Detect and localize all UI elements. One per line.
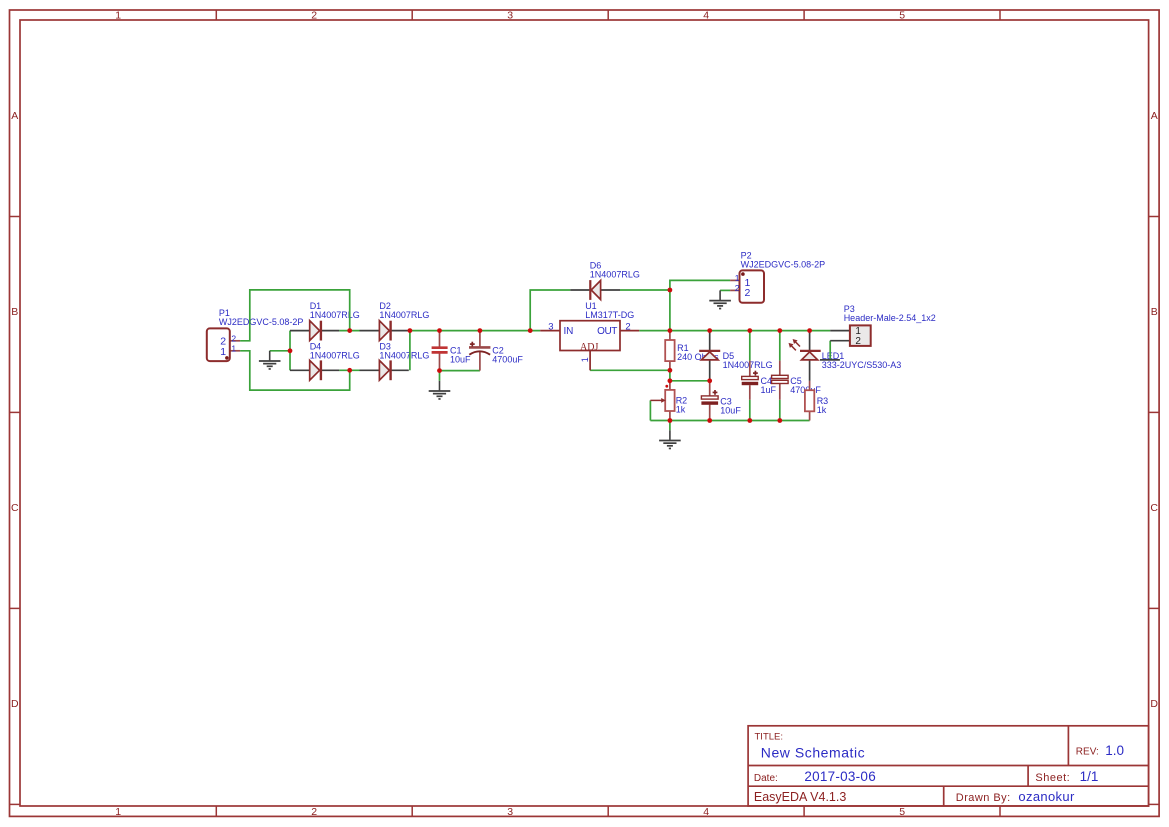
row tick left 1 xyxy=(10,216,21,218)
wire D6 anode to OUT column xyxy=(620,289,670,291)
potentiometer R2 wiper arrow xyxy=(650,385,668,403)
junction node J1 xyxy=(347,328,352,333)
svg-text:1k: 1k xyxy=(817,405,827,415)
svg-text:D: D xyxy=(11,698,19,710)
resistor R1 xyxy=(665,340,674,361)
wire P3 pin1 lead xyxy=(830,330,850,332)
column tick bottom 1 xyxy=(215,806,217,816)
wire D6 leads xyxy=(570,289,589,291)
lead C1 top xyxy=(439,331,441,348)
wire C5 column upper xyxy=(779,331,781,361)
capacitor C4 (polarized) xyxy=(742,371,759,385)
wire R2 wiper to bottom rail xyxy=(649,400,651,420)
svg-text:1N4007RLG: 1N4007RLG xyxy=(310,310,360,320)
connector P2 xyxy=(740,270,765,302)
svg-text:2: 2 xyxy=(231,333,236,343)
op-amp regulator U1 LM317T-DG xyxy=(560,321,620,354)
svg-text:2: 2 xyxy=(311,806,317,818)
lead R3 top xyxy=(809,381,811,390)
wire P2 pin2 to ground xyxy=(720,289,730,291)
pin stub U1 pin1 ADJ xyxy=(589,351,591,371)
svg-text:TITLE:: TITLE: xyxy=(755,732,784,743)
svg-text:2: 2 xyxy=(625,322,630,333)
svg-text:New Schematic: New Schematic xyxy=(761,745,865,761)
capacitor C2 (polarized) xyxy=(469,342,490,355)
svg-text:4700uF: 4700uF xyxy=(492,355,523,365)
diode D1 xyxy=(310,321,321,341)
connector P3 xyxy=(850,325,871,347)
svg-text:1N4007RLG: 1N4007RLG xyxy=(310,351,360,361)
wire ADJ row to D5 anode xyxy=(670,380,710,382)
svg-text:WJ2EDGVC-5.08-2P: WJ2EDGVC-5.08-2P xyxy=(741,260,826,270)
wire P1 pin1 to bridge bottom (net AC2) xyxy=(240,351,350,390)
junction node J18 xyxy=(668,418,673,423)
LED1 emission arrows xyxy=(791,346,796,351)
svg-text:Date:: Date: xyxy=(754,773,778,784)
svg-text:3: 3 xyxy=(548,322,553,333)
svg-text:ozanokur: ozanokur xyxy=(1018,789,1075,804)
wire bottom ground rail xyxy=(650,420,809,422)
lead R3 bottom xyxy=(809,411,811,420)
wire D5 leads xyxy=(709,331,711,351)
junction node J16 xyxy=(668,378,673,383)
svg-text:2: 2 xyxy=(745,287,751,299)
wire bottom rail to ground stub xyxy=(669,421,671,431)
wire D2 leads xyxy=(360,330,380,332)
junction node J13 xyxy=(437,368,442,373)
svg-text:1/1: 1/1 xyxy=(1080,769,1099,784)
svg-text:ADJ: ADJ xyxy=(580,342,598,353)
svg-text:D: D xyxy=(1150,698,1158,710)
column tick top 4 xyxy=(803,10,805,20)
wire bridge left rail xyxy=(289,331,291,371)
ground (C1/C2) xyxy=(429,381,451,399)
lead C5 top xyxy=(779,361,781,376)
svg-text:Header-Male-2.54_1x2: Header-Male-2.54_1x2 xyxy=(844,313,936,323)
pin stub U1 pin2 OUT xyxy=(620,330,639,332)
column tick top 3 xyxy=(607,10,609,20)
row tick right 4 xyxy=(1149,803,1160,805)
junction node J5 xyxy=(528,328,533,333)
wire VIN rail up to D6 cathode xyxy=(530,290,570,331)
svg-text:1N4007RLG: 1N4007RLG xyxy=(723,360,773,370)
svg-text:1: 1 xyxy=(115,10,121,22)
svg-text:A: A xyxy=(1151,110,1158,122)
LED LED1 xyxy=(789,339,821,360)
lead R2 bottom xyxy=(669,411,671,421)
svg-text:C: C xyxy=(11,502,19,514)
lead R1 bottom xyxy=(669,361,671,370)
junction node J17 xyxy=(707,378,712,383)
wire ADJ node R1 to R2 xyxy=(669,370,671,381)
wire LED1 leads xyxy=(809,331,811,351)
junction node J19 xyxy=(707,418,712,423)
junction node J21 xyxy=(777,418,782,423)
junction node J2 xyxy=(408,328,413,333)
svg-text:1: 1 xyxy=(220,346,226,358)
junction node J14 xyxy=(668,288,673,293)
wire main rail bridge to U1 IN (net VIN) xyxy=(409,330,540,332)
svg-text:Sheet:: Sheet: xyxy=(1035,772,1070,784)
ground (P1 input) xyxy=(259,351,281,369)
connector P1 xyxy=(207,328,230,361)
column tick top 2 xyxy=(411,10,413,20)
lead C2 bottom xyxy=(479,352,481,371)
svg-text:5: 5 xyxy=(899,10,905,22)
svg-text:A: A xyxy=(11,110,18,122)
wire D1 leads xyxy=(290,330,310,332)
wire VOUT rail to P3 pin1 xyxy=(670,330,830,332)
row tick right 2 xyxy=(1149,411,1160,413)
svg-text:1: 1 xyxy=(735,273,740,283)
pin stub P1 pin2 xyxy=(230,340,240,342)
lead R2 top xyxy=(669,381,671,390)
svg-text:10uF: 10uF xyxy=(450,355,471,365)
lead R1 top xyxy=(669,331,671,340)
lead C5 bottom xyxy=(779,384,781,400)
svg-text:2: 2 xyxy=(855,336,861,347)
svg-text:3: 3 xyxy=(507,10,513,22)
diode D3 xyxy=(379,360,390,380)
junction node J8 xyxy=(747,328,752,333)
column tick bottom 5 xyxy=(999,806,1001,816)
svg-text:10uF: 10uF xyxy=(720,405,741,415)
pin stub P1 pin1 xyxy=(230,350,240,352)
junction node J7 xyxy=(707,328,712,333)
wire P3 pin2 to LED cathode node xyxy=(820,359,840,361)
junction node J11 xyxy=(288,348,293,353)
column tick bottom 3 xyxy=(607,806,609,816)
svg-text:B: B xyxy=(1151,306,1158,318)
pin stub U1 pin3 IN xyxy=(540,330,560,332)
row tick left 3 xyxy=(10,607,21,609)
row tick left 4 xyxy=(10,803,21,805)
svg-text:333-2UYC/S530-A3: 333-2UYC/S530-A3 xyxy=(822,360,902,370)
row tick right 3 xyxy=(1149,607,1160,609)
column tick bottom 4 xyxy=(803,806,805,816)
junction node J9 xyxy=(777,328,782,333)
svg-text:B: B xyxy=(11,306,18,318)
wire C1 bottom to ground stub xyxy=(439,371,441,381)
wire bridge top middle junction segment xyxy=(339,330,359,332)
column tick top 5 xyxy=(999,10,1001,20)
svg-text:4: 4 xyxy=(703,806,709,818)
wire C4 column lower xyxy=(749,400,751,421)
diode D4 xyxy=(310,360,321,380)
lead C3 bottom xyxy=(709,405,711,421)
svg-text:1N4007RLG: 1N4007RLG xyxy=(379,351,429,361)
column tick bottom 2 xyxy=(411,806,413,816)
svg-text:1N4007RLG: 1N4007RLG xyxy=(379,310,429,320)
diode D6 xyxy=(590,280,600,300)
svg-text:1k: 1k xyxy=(676,405,686,415)
svg-text:IN: IN xyxy=(564,326,574,337)
lead C4 top xyxy=(749,361,751,377)
row tick left 2 xyxy=(10,411,21,413)
ground (bottom rail) xyxy=(659,430,681,448)
svg-text:3: 3 xyxy=(507,806,513,818)
wire C1 bottom to C2 bottom xyxy=(440,370,480,372)
wire U1 OUT pin to rail (net VOUT) xyxy=(639,330,670,332)
svg-text:4: 4 xyxy=(703,10,709,22)
wire bridge right rail xyxy=(409,331,411,371)
svg-text:C: C xyxy=(1150,502,1158,514)
lead C2 top xyxy=(479,331,481,348)
svg-text:LM317T-DG: LM317T-DG xyxy=(585,310,634,320)
wire D4 leads xyxy=(290,369,310,371)
junction node J6 xyxy=(668,328,673,333)
title block xyxy=(748,726,1149,806)
resistor R3 xyxy=(805,390,814,411)
svg-text:2: 2 xyxy=(311,10,317,22)
resistor R2 xyxy=(665,390,674,411)
svg-text:EasyEDA V4.1.3: EasyEDA V4.1.3 xyxy=(754,790,846,804)
junction node J10 xyxy=(807,328,812,333)
capacitor C5 xyxy=(772,375,789,383)
svg-text:1N4007RLG: 1N4007RLG xyxy=(590,269,640,279)
junction node J4 xyxy=(478,328,483,333)
svg-text:REV:: REV: xyxy=(1076,747,1099,758)
wire OUT column vertical (P2 branch / D6 / rail) xyxy=(670,280,730,330)
wire C4 column upper xyxy=(749,331,751,361)
column tick top 1 xyxy=(215,10,217,20)
svg-text:1: 1 xyxy=(580,357,590,362)
ground (P2) xyxy=(709,290,731,308)
wire U1 ADJ to R1 bottom junction xyxy=(590,369,670,371)
svg-text:1: 1 xyxy=(115,806,121,818)
svg-text:1: 1 xyxy=(231,343,236,353)
diode D5 xyxy=(699,351,720,360)
wire P3 pin2 vertical xyxy=(829,341,831,360)
capacitor C1 xyxy=(432,348,448,353)
lead C3 top xyxy=(709,381,711,396)
svg-text:Drawn By:: Drawn By: xyxy=(956,792,1011,804)
svg-text:2017-03-06: 2017-03-06 xyxy=(804,769,876,784)
pin stub P2 pin2 xyxy=(730,289,739,291)
svg-text:1.0: 1.0 xyxy=(1105,743,1124,758)
wire bridge bottom middle junction segment xyxy=(339,369,359,371)
junction node J15 xyxy=(668,368,673,373)
wire D3 leads xyxy=(360,369,380,371)
svg-text:WJ2EDGVC-5.08-2P: WJ2EDGVC-5.08-2P xyxy=(219,317,304,327)
lead C1 bottom xyxy=(439,353,441,371)
svg-text:5: 5 xyxy=(899,806,905,818)
row tick right 1 xyxy=(1149,216,1160,218)
svg-text:1uF: 1uF xyxy=(761,385,777,395)
wire P3 pin2 lead xyxy=(830,340,850,342)
diode D2 xyxy=(379,321,390,341)
wire C5 column lower xyxy=(779,400,781,421)
wire ground to bridge left rail xyxy=(270,350,290,352)
pin stub P2 pin1 xyxy=(730,279,739,281)
capacitor C3 (polarized) xyxy=(701,390,718,405)
lead C4 bottom xyxy=(749,385,751,400)
svg-text:OUT: OUT xyxy=(597,326,617,337)
svg-text:2: 2 xyxy=(735,283,740,293)
wire P1 pin2 to bridge top (net AC1) xyxy=(240,290,350,341)
junction node J20 xyxy=(747,418,752,423)
junction node J3 xyxy=(437,328,442,333)
junction node J12 xyxy=(347,368,352,373)
